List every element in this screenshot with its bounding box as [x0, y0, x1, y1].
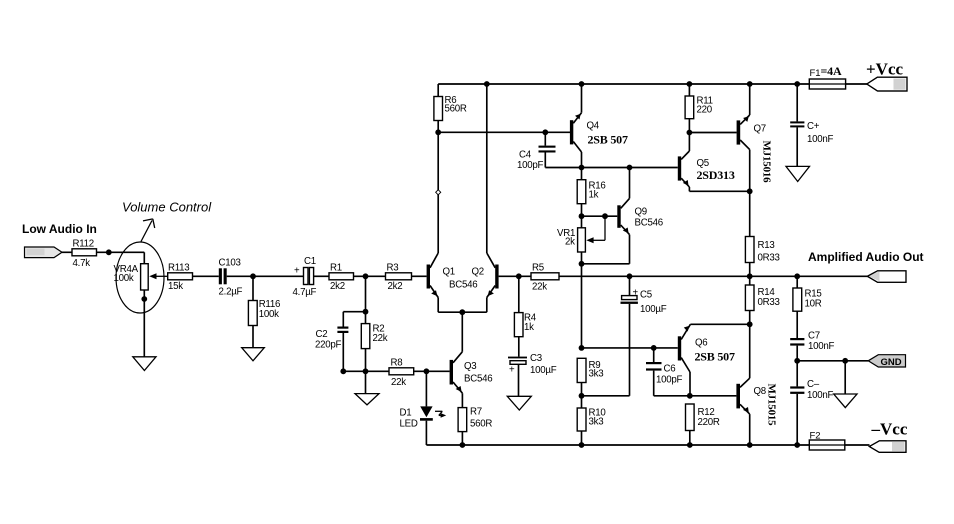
trimmer VR1 — [578, 228, 586, 252]
svg-text:100nF: 100nF — [808, 341, 835, 352]
svg-text:C+: C+ — [807, 121, 820, 132]
svg-text:R5: R5 — [532, 262, 544, 273]
svg-text:C3: C3 — [530, 353, 542, 364]
svg-text:Q2: Q2 — [472, 266, 484, 277]
wire: Q1 collector up — [437, 132, 439, 253]
svg-text:LED: LED — [400, 418, 418, 429]
node J: R12 top / Q6 collector / Q8 base — [687, 393, 693, 399]
connector +Vcc — [867, 77, 907, 91]
node K: R14 bottom / Q6 emitter / Q8 collector — [747, 321, 753, 327]
node C — [363, 273, 369, 279]
resistor R12 — [686, 404, 695, 431]
transistor Q2 — [495, 265, 498, 289]
wire — [143, 252, 145, 263]
wire: VAS node to Q5 base — [545, 167, 678, 169]
svg-text:=4A: =4A — [821, 64, 842, 78]
wire — [252, 326, 254, 348]
svg-text:R13: R13 — [758, 240, 775, 251]
svg-text:3k3: 3k3 — [589, 368, 604, 379]
node H: Q7 emitter / Q5 emitter / R13 — [747, 188, 753, 194]
resistor R13 — [749, 191, 751, 236]
wire — [414, 370, 450, 372]
ground — [133, 357, 156, 371]
transistor Q1 — [427, 265, 430, 289]
svg-text:GND: GND — [881, 357, 902, 368]
ground — [834, 394, 857, 408]
potentiometer VR4A — [116, 242, 164, 313]
svg-text:15k: 15k — [168, 281, 183, 292]
svg-text:Q8: Q8 — [754, 386, 766, 397]
svg-text:C4: C4 — [519, 150, 532, 161]
node I: R9/R10 junction — [579, 393, 585, 399]
svg-text:220R: 220R — [698, 417, 720, 428]
connector -Vcc — [869, 441, 906, 453]
resistor R113 — [168, 273, 193, 280]
connector output — [867, 271, 906, 283]
wire: Q9 base — [582, 215, 618, 217]
svg-text:D1: D1 — [400, 407, 412, 418]
capacitor C7 — [790, 338, 804, 340]
capacitor C103 — [219, 268, 222, 284]
svg-text:BC546: BC546 — [635, 218, 663, 229]
svg-text:1k: 1k — [524, 322, 534, 333]
svg-text:560R: 560R — [445, 103, 467, 114]
wire — [97, 251, 145, 253]
transistor Q6 — [678, 336, 681, 360]
svg-text:4.7k: 4.7k — [73, 258, 91, 269]
resistor R8 — [366, 370, 390, 372]
svg-text:Low Audio In: Low Audio In — [22, 222, 97, 236]
svg-text:R8: R8 — [391, 358, 403, 369]
wire: Q6 base line — [582, 347, 678, 349]
svg-text:Volume Control: Volume Control — [122, 200, 212, 215]
svg-text:C2: C2 — [316, 329, 328, 340]
fuse F2 — [809, 440, 845, 450]
svg-text:22k: 22k — [532, 281, 547, 292]
svg-text:Amplified Audio Out: Amplified Audio Out — [808, 250, 924, 264]
svg-text:2k2: 2k2 — [330, 281, 345, 292]
wire — [193, 275, 219, 277]
resistor R7 — [458, 408, 467, 432]
svg-text:Q6: Q6 — [695, 337, 707, 348]
svg-text:Q7: Q7 — [754, 123, 766, 134]
svg-text:BC546: BC546 — [464, 373, 492, 384]
resistor R15 — [796, 276, 798, 288]
svg-text:+Vcc: +Vcc — [866, 60, 904, 79]
svg-text:10R: 10R — [805, 298, 822, 309]
node L: GND branch — [794, 358, 800, 364]
node: small hop marker on Q1 collector wire — [436, 190, 441, 195]
svg-text:MJ15016: MJ15016 — [761, 141, 773, 184]
svg-text:MJ15015: MJ15015 — [766, 384, 778, 427]
svg-text:R112: R112 — [73, 239, 94, 250]
resistor R1 — [329, 273, 354, 280]
ground — [355, 394, 379, 405]
resistor R9 — [579, 345, 585, 351]
capacitor C5 — [629, 276, 631, 295]
ground — [507, 396, 531, 410]
svg-text:C5: C5 — [640, 289, 652, 300]
svg-text:2.2µF: 2.2µF — [219, 286, 243, 297]
transistor Q4 — [570, 120, 573, 144]
svg-text:Q3: Q3 — [464, 361, 476, 372]
svg-text:R1: R1 — [330, 262, 342, 273]
resistor R2 — [361, 324, 370, 349]
svg-text:22k: 22k — [373, 333, 388, 344]
input connector — [25, 247, 63, 258]
resistor R16 — [577, 180, 586, 204]
transistor Q3 — [450, 360, 453, 385]
resistor R5 — [531, 273, 559, 280]
wire: Q2 base to node — [499, 275, 531, 277]
resistor R116 — [252, 276, 254, 300]
node E: Q1 collector / Q4 base — [435, 129, 441, 135]
svg-text:22k: 22k — [391, 377, 406, 388]
svg-text:2SB 507: 2SB 507 — [588, 133, 628, 147]
svg-text:F1: F1 — [810, 68, 821, 79]
wire — [412, 275, 427, 277]
resistor R112 — [72, 249, 97, 256]
wire: Q2 collector up — [486, 84, 488, 253]
svg-text:Q9: Q9 — [635, 207, 647, 218]
transistor Q7 — [737, 120, 741, 144]
svg-text:C7: C7 — [808, 330, 820, 341]
resistor R3 — [386, 273, 412, 280]
ground — [242, 348, 265, 361]
wire: C-branch from node C down — [365, 276, 367, 323]
capacitor C4 — [544, 132, 546, 145]
svg-text:R7: R7 — [470, 406, 482, 417]
svg-text:100µF: 100µF — [530, 365, 557, 376]
wire: output rail — [559, 275, 868, 277]
ground — [786, 166, 810, 181]
transistor Q5 — [678, 156, 681, 180]
svg-text:C6: C6 — [664, 364, 676, 375]
svg-text:100k: 100k — [259, 309, 279, 320]
capacitor C2 — [343, 311, 365, 313]
svg-text:100nF: 100nF — [807, 390, 834, 401]
svg-text:100µF: 100µF — [640, 304, 667, 315]
connector GND — [868, 355, 905, 367]
svg-text:C–: C– — [807, 379, 820, 390]
wire — [354, 275, 386, 277]
node D — [424, 368, 430, 374]
svg-text:+: + — [509, 364, 515, 375]
LED D1 — [425, 371, 427, 406]
wire — [314, 275, 329, 277]
wiper arrow of VR1 — [604, 216, 606, 240]
svg-text:100pF: 100pF — [517, 160, 544, 171]
resistor R4 — [518, 276, 520, 312]
svg-text:3k3: 3k3 — [589, 416, 604, 427]
svg-text:0R33: 0R33 — [758, 252, 780, 263]
wire — [846, 83, 867, 85]
volume control adjust arrow — [141, 221, 152, 242]
wire: +Vcc top rail — [438, 83, 809, 85]
svg-text:220: 220 — [697, 105, 713, 116]
capacitor C6 — [653, 348, 655, 362]
svg-text:R3: R3 — [387, 262, 399, 273]
svg-text:Q1: Q1 — [443, 266, 455, 277]
svg-text:4.7µF: 4.7µF — [293, 287, 317, 298]
wire — [845, 444, 870, 446]
svg-text:R113: R113 — [168, 262, 189, 273]
resistor R14 — [749, 276, 751, 285]
svg-text:2k: 2k — [565, 236, 575, 247]
svg-text:100nF: 100nF — [807, 134, 834, 145]
resistor R11 — [688, 84, 690, 96]
transistor Q9 — [617, 205, 620, 228]
svg-text:+: + — [633, 287, 639, 298]
svg-text:220pF: 220pF — [315, 339, 342, 350]
wire: -Vcc bottom rail — [426, 444, 809, 446]
svg-text:+: + — [294, 265, 300, 276]
resistor R6 — [437, 84, 439, 97]
svg-text:0R33: 0R33 — [758, 297, 780, 308]
svg-text:1k: 1k — [589, 189, 599, 200]
svg-text:F2: F2 — [810, 431, 821, 442]
svg-text:2SD313: 2SD313 — [697, 168, 735, 182]
svg-text:2k2: 2k2 — [388, 281, 403, 292]
capacitor C- — [790, 386, 804, 388]
svg-text:100k: 100k — [114, 273, 134, 284]
node G: R11 / Q5 collector / Q7 base — [687, 130, 693, 136]
wire — [227, 275, 304, 277]
transistor Q8 — [736, 384, 740, 409]
wiper arrow of VR4A — [154, 275, 168, 277]
wire — [62, 251, 72, 253]
svg-text:BC546: BC546 — [449, 279, 477, 290]
node: output rail junctions — [627, 273, 633, 279]
svg-text:–Vcc: –Vcc — [871, 420, 908, 439]
node F — [579, 213, 585, 219]
capacitor C+ — [796, 84, 798, 121]
svg-text:Q4: Q4 — [587, 120, 600, 131]
svg-text:100pF: 100pF — [656, 374, 683, 385]
node A — [106, 249, 112, 255]
wire — [143, 290, 145, 357]
resistor R10 — [577, 408, 586, 431]
svg-text:2SB 507: 2SB 507 — [695, 349, 735, 363]
svg-text:C1: C1 — [304, 256, 316, 267]
capacitor C3 — [508, 357, 527, 359]
node B — [250, 273, 256, 279]
svg-text:560R: 560R — [470, 418, 492, 429]
svg-text:C103: C103 — [219, 258, 241, 269]
wire: common emitters — [438, 311, 487, 313]
fuse F1 — [809, 79, 845, 89]
